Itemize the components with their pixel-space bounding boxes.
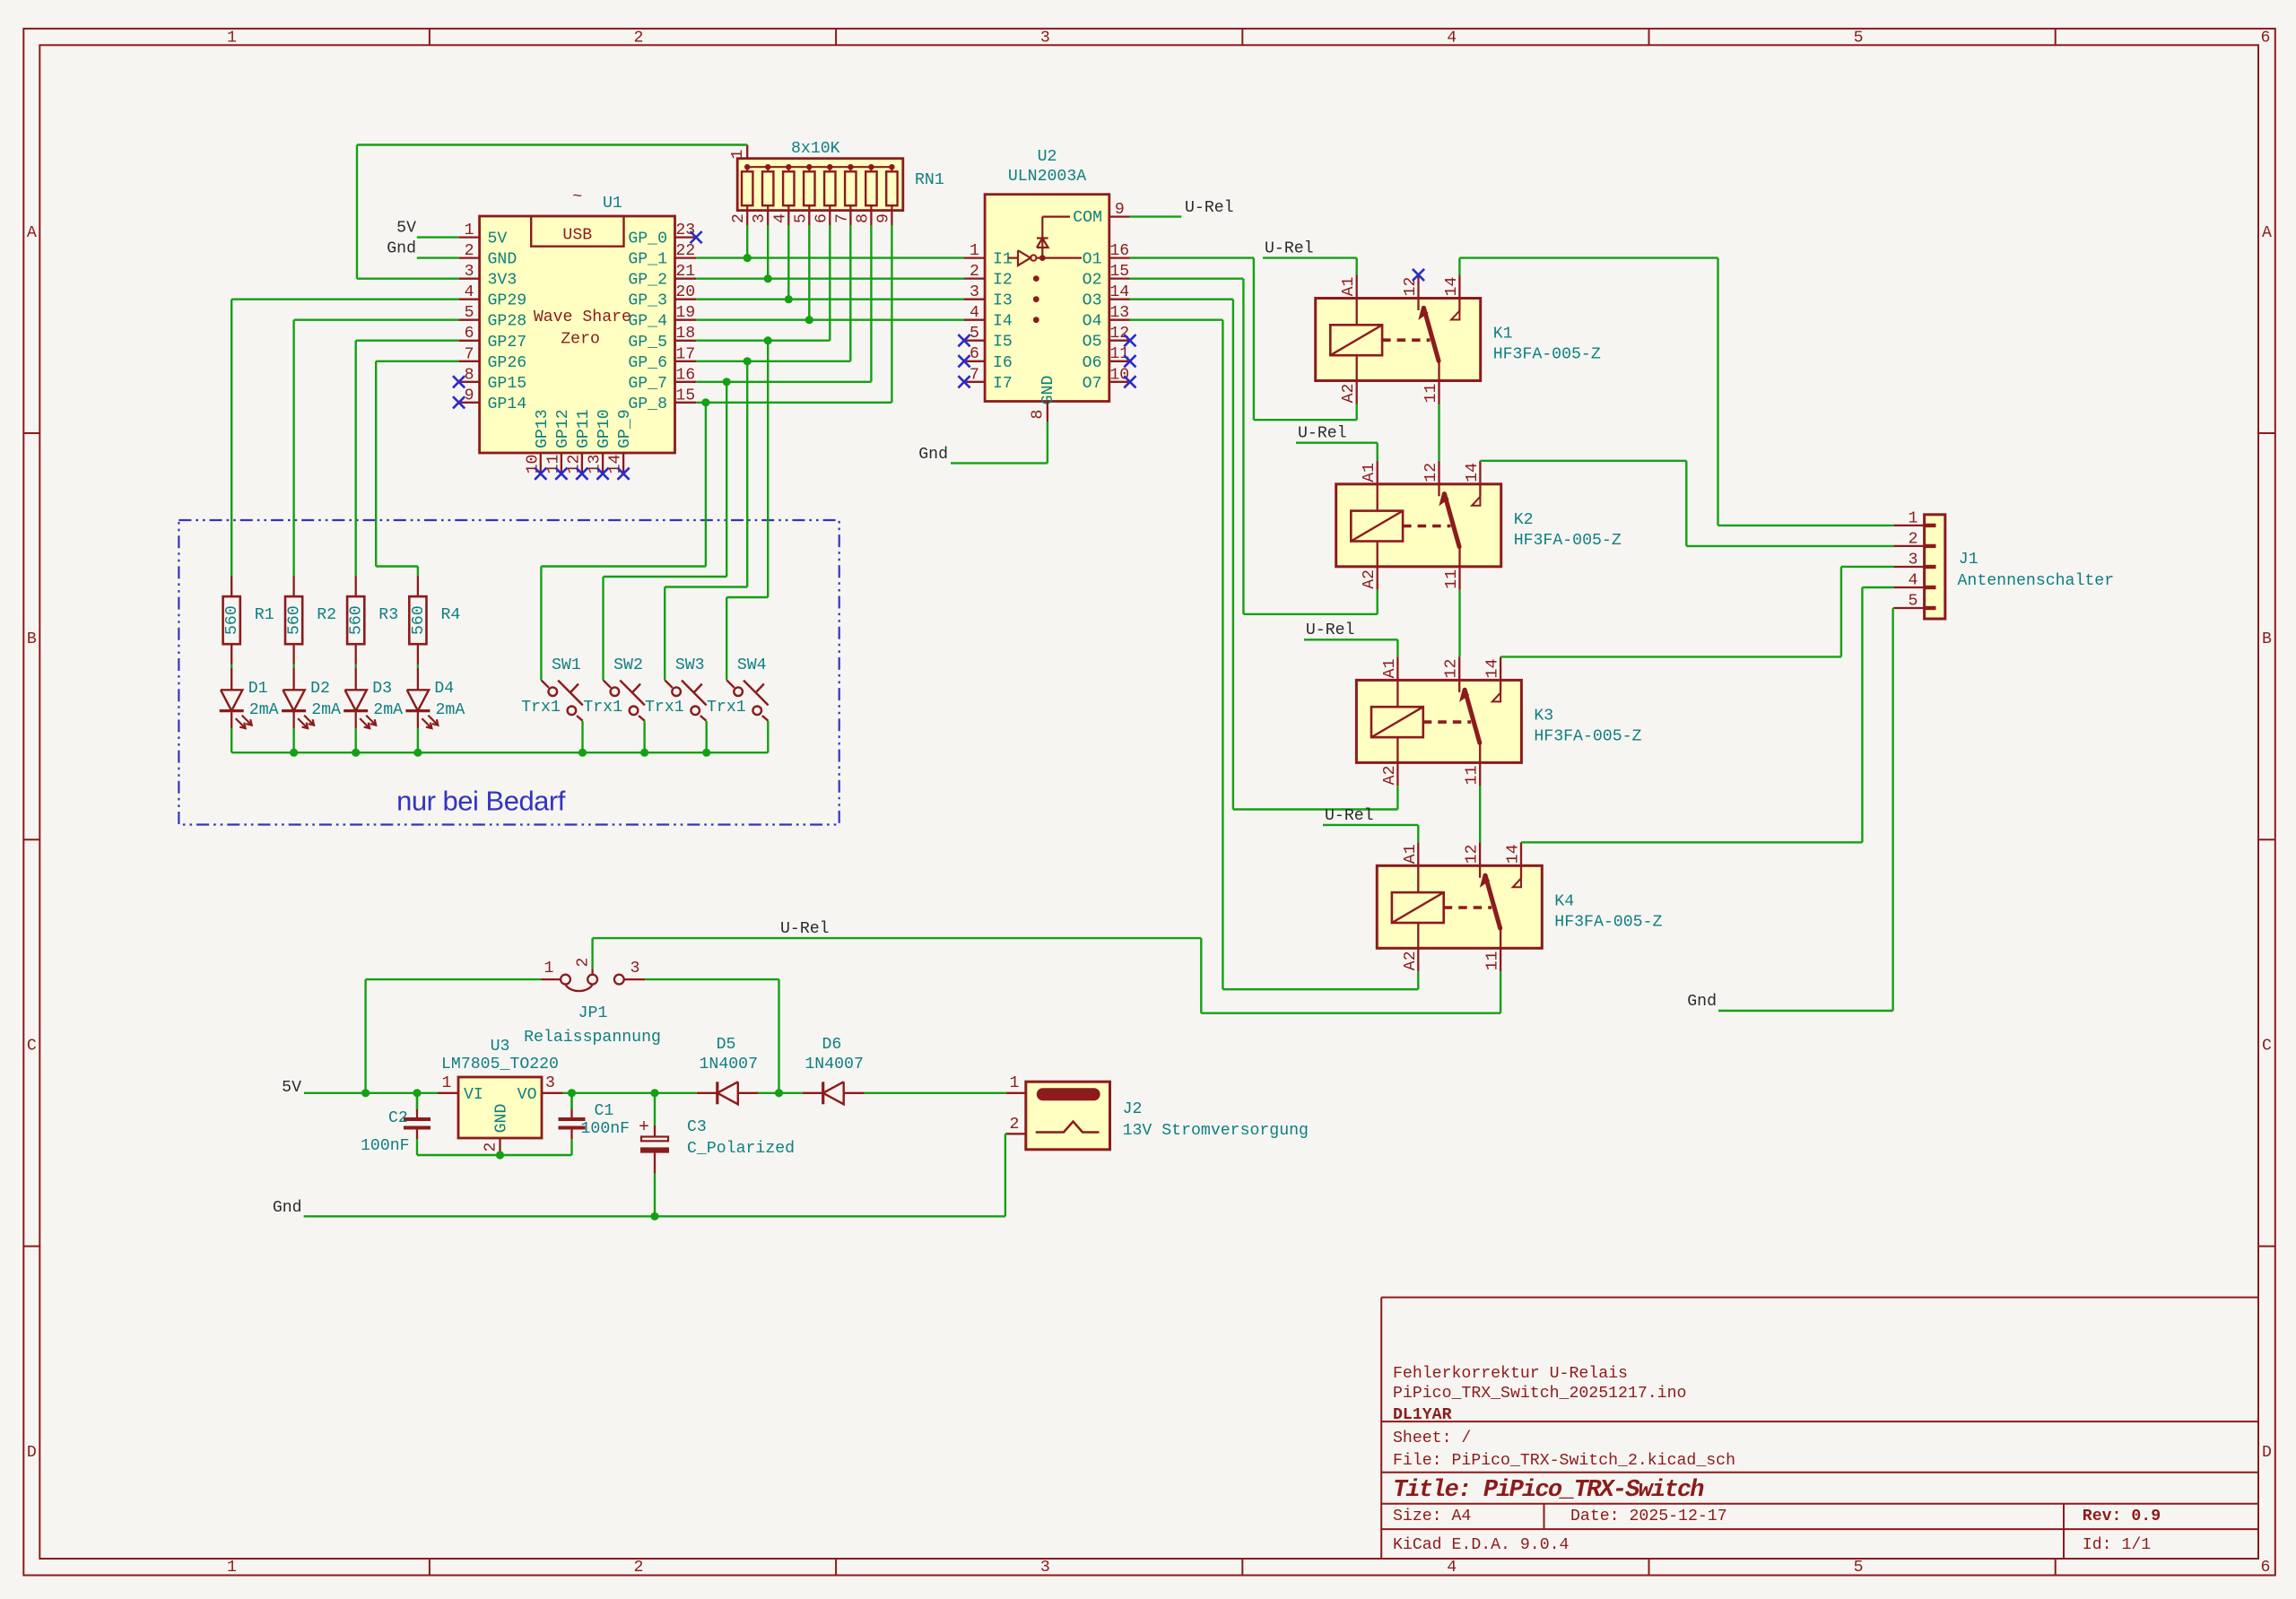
svg-text:5V: 5V — [282, 1079, 301, 1097]
svg-text:VO: VO — [517, 1086, 537, 1104]
svg-text:U2: U2 — [1038, 148, 1057, 166]
svg-text:9: 9 — [1115, 201, 1125, 219]
svg-text:A1: A1 — [1381, 658, 1399, 678]
svg-text:Relaisspannung: Relaisspannung — [524, 1029, 661, 1047]
svg-text:6: 6 — [2261, 30, 2271, 48]
svg-text:1: 1 — [1010, 1074, 1020, 1092]
svg-text:GP_6: GP_6 — [628, 354, 667, 372]
svg-text:R1: R1 — [255, 606, 274, 624]
svg-text:GP14: GP14 — [488, 395, 527, 413]
svg-text:A1: A1 — [1402, 844, 1420, 864]
svg-text:14: 14 — [1443, 277, 1461, 297]
svg-text:11: 11 — [1422, 384, 1440, 404]
svg-text:Rev: 0.9: Rev: 0.9 — [2083, 1508, 2161, 1525]
svg-text:1: 1 — [729, 149, 747, 159]
svg-text:3: 3 — [970, 283, 979, 301]
svg-text:O5: O5 — [1083, 334, 1102, 352]
svg-text:2mA: 2mA — [436, 701, 465, 719]
svg-text:14: 14 — [1109, 283, 1129, 301]
svg-text:HF3FA-005-Z: HF3FA-005-Z — [1534, 727, 1641, 745]
svg-text:1: 1 — [227, 30, 237, 48]
svg-text:RN1: RN1 — [915, 171, 944, 189]
svg-text:U3: U3 — [491, 1038, 510, 1056]
svg-text:U1: U1 — [603, 195, 622, 213]
svg-text:JP1: JP1 — [578, 1004, 608, 1022]
svg-text:I2: I2 — [993, 272, 1013, 290]
svg-text:+: + — [639, 1117, 649, 1138]
svg-text:HF3FA-005-Z: HF3FA-005-Z — [1493, 346, 1601, 364]
svg-text:PiPico_TRX_Switch_20251217.ino: PiPico_TRX_Switch_20251217.ino — [1393, 1385, 1686, 1403]
svg-text:16: 16 — [675, 366, 695, 384]
svg-text:4: 4 — [970, 304, 979, 322]
svg-text:Title: PiPico_TRX-Switch: Title: PiPico_TRX-Switch — [1393, 1477, 1704, 1504]
svg-text:D2: D2 — [310, 680, 330, 698]
svg-text:A1: A1 — [1361, 463, 1378, 482]
svg-text:GP28: GP28 — [488, 313, 527, 331]
svg-text:B: B — [27, 630, 37, 648]
svg-text:3: 3 — [1040, 30, 1050, 48]
svg-text:6: 6 — [970, 345, 979, 363]
svg-text:8: 8 — [854, 213, 872, 223]
svg-text:1: 1 — [227, 1559, 237, 1577]
svg-text:LM7805_TO220: LM7805_TO220 — [441, 1056, 559, 1073]
svg-text:Gnd: Gnd — [387, 240, 416, 258]
svg-text:5: 5 — [1854, 30, 1864, 48]
svg-text:O3: O3 — [1083, 292, 1102, 310]
svg-text:12: 12 — [1109, 325, 1129, 343]
svg-text:GP_2: GP_2 — [628, 272, 667, 290]
svg-text:O4: O4 — [1083, 313, 1102, 331]
svg-text:14: 14 — [1464, 463, 1482, 482]
svg-text:GP11: GP11 — [575, 409, 593, 448]
svg-text:Trx1: Trx1 — [583, 699, 622, 717]
svg-text:20: 20 — [675, 283, 695, 301]
svg-text:2mA: 2mA — [373, 701, 403, 719]
svg-text:21: 21 — [675, 263, 695, 281]
svg-text:560: 560 — [410, 605, 428, 635]
svg-text:2: 2 — [970, 263, 979, 281]
svg-text:100nF: 100nF — [361, 1137, 410, 1155]
svg-text:5V: 5V — [396, 220, 416, 238]
svg-text:1: 1 — [442, 1074, 452, 1092]
svg-text:100nF: 100nF — [581, 1120, 631, 1138]
svg-text:SW4: SW4 — [737, 656, 767, 674]
svg-text:GP_5: GP_5 — [628, 334, 667, 352]
svg-text:2mA: 2mA — [311, 701, 341, 719]
svg-text:4: 4 — [1909, 572, 1918, 590]
svg-text:23: 23 — [675, 222, 695, 239]
svg-text:5V: 5V — [488, 230, 508, 248]
svg-text:Fehlerkorrektur U-Relais: Fehlerkorrektur U-Relais — [1393, 1365, 1628, 1383]
svg-text:9: 9 — [874, 213, 892, 223]
svg-text:5: 5 — [792, 213, 810, 223]
svg-text:13: 13 — [1109, 304, 1129, 322]
svg-text:File: PiPico_TRX-Switch_2.kica: File: PiPico_TRX-Switch_2.kicad_sch — [1393, 1452, 1735, 1470]
svg-text:HF3FA-005-Z: HF3FA-005-Z — [1514, 532, 1622, 550]
svg-text:7: 7 — [833, 213, 851, 223]
svg-text:6: 6 — [465, 325, 474, 343]
svg-text:12: 12 — [1422, 463, 1440, 482]
svg-text:15: 15 — [675, 387, 695, 404]
svg-text:U-Rel: U-Rel — [1298, 425, 1347, 443]
svg-text:15: 15 — [1109, 263, 1129, 281]
svg-text:1: 1 — [544, 960, 554, 978]
svg-text:18: 18 — [675, 325, 695, 343]
svg-text:11: 11 — [1484, 951, 1502, 970]
svg-text:GP29: GP29 — [488, 292, 527, 310]
svg-text:D6: D6 — [822, 1036, 842, 1054]
svg-text:K4: K4 — [1554, 892, 1574, 910]
svg-text:560: 560 — [348, 605, 366, 635]
svg-text:U-Rel: U-Rel — [1325, 807, 1374, 825]
svg-text:A2: A2 — [1402, 951, 1420, 970]
svg-text:8x10K: 8x10K — [791, 140, 840, 158]
svg-text:O2: O2 — [1083, 272, 1102, 290]
svg-text:4: 4 — [1447, 1559, 1457, 1577]
svg-text:U-Rel: U-Rel — [780, 920, 830, 938]
svg-text:I5: I5 — [993, 334, 1013, 352]
svg-text:6: 6 — [813, 213, 831, 223]
svg-text:4: 4 — [1447, 30, 1457, 48]
svg-text:9: 9 — [465, 387, 474, 404]
svg-text:Date: 2025-12-17: Date: 2025-12-17 — [1570, 1508, 1727, 1525]
svg-text:GP_1: GP_1 — [628, 251, 667, 269]
svg-text:GP27: GP27 — [488, 334, 527, 352]
svg-text:GND: GND — [1039, 376, 1057, 405]
svg-text:Size: A4: Size: A4 — [1393, 1508, 1471, 1525]
svg-text:2: 2 — [633, 30, 643, 48]
svg-text:GND: GND — [493, 1104, 511, 1134]
svg-text:COM: COM — [1073, 209, 1102, 227]
svg-text:ULN2003A: ULN2003A — [1008, 168, 1086, 186]
svg-text:3: 3 — [545, 1074, 555, 1092]
svg-text:K1: K1 — [1493, 326, 1513, 343]
svg-text:GP12: GP12 — [554, 409, 572, 448]
svg-text:11: 11 — [1464, 765, 1482, 785]
svg-text:A1: A1 — [1340, 277, 1358, 297]
svg-text:I1: I1 — [993, 251, 1013, 269]
svg-text:A2: A2 — [1361, 569, 1378, 589]
svg-text:GP26: GP26 — [488, 354, 527, 372]
svg-text:R2: R2 — [317, 606, 336, 624]
svg-text:7: 7 — [465, 345, 474, 363]
svg-text:11: 11 — [1443, 569, 1461, 589]
svg-text:C2: C2 — [388, 1109, 408, 1127]
svg-text:O6: O6 — [1083, 354, 1102, 372]
svg-text:C_Polarized: C_Polarized — [687, 1140, 795, 1158]
svg-text:5: 5 — [465, 304, 474, 322]
svg-text:D3: D3 — [372, 680, 392, 698]
svg-text:2mA: 2mA — [249, 701, 279, 719]
svg-text:GP10: GP10 — [596, 409, 613, 448]
svg-text:A: A — [2262, 224, 2272, 242]
svg-text:VI: VI — [464, 1086, 483, 1104]
svg-text:O7: O7 — [1083, 375, 1102, 393]
svg-text:1: 1 — [1909, 509, 1918, 527]
svg-text:D: D — [27, 1444, 37, 1462]
svg-text:KiCad E.D.A. 9.0.4: KiCad E.D.A. 9.0.4 — [1393, 1536, 1569, 1554]
svg-text:Antennenschalter: Antennenschalter — [1958, 572, 2115, 590]
svg-text:8: 8 — [1030, 410, 1048, 420]
svg-text:SW3: SW3 — [675, 656, 705, 674]
svg-text:6: 6 — [2261, 1559, 2271, 1577]
svg-text:1N4007: 1N4007 — [804, 1056, 864, 1073]
svg-text:B: B — [2262, 630, 2272, 648]
svg-text:3: 3 — [1040, 1559, 1050, 1577]
svg-text:C3: C3 — [687, 1118, 707, 1136]
svg-text:nur bei Bedarf: nur bei Bedarf — [396, 786, 566, 817]
svg-text:R3: R3 — [378, 606, 398, 624]
svg-text:Gnd: Gnd — [918, 446, 948, 464]
svg-text:4: 4 — [771, 213, 789, 223]
svg-text:3: 3 — [465, 263, 474, 281]
svg-text:8: 8 — [465, 366, 474, 384]
svg-text:2: 2 — [483, 1143, 500, 1152]
svg-text:C1: C1 — [595, 1102, 614, 1120]
svg-text:3: 3 — [631, 960, 640, 978]
svg-text:D4: D4 — [434, 680, 454, 698]
svg-text:D1: D1 — [248, 680, 268, 698]
svg-text:560: 560 — [286, 605, 304, 635]
svg-text:Trx1: Trx1 — [645, 699, 684, 717]
svg-text:14: 14 — [1484, 658, 1502, 678]
svg-text:GP_9: GP_9 — [616, 409, 634, 448]
svg-text:GND: GND — [488, 251, 517, 269]
svg-text:J2: J2 — [1123, 1100, 1143, 1118]
svg-text:GP15: GP15 — [488, 375, 527, 393]
svg-text:Id: 1/1: Id: 1/1 — [2083, 1536, 2151, 1554]
svg-text:Zero: Zero — [561, 331, 600, 349]
svg-text:K2: K2 — [1514, 511, 1534, 529]
svg-text:3: 3 — [751, 213, 769, 223]
svg-text:2: 2 — [465, 242, 474, 260]
svg-text:U-Rel: U-Rel — [1265, 240, 1314, 258]
svg-text:Sheet: /: Sheet: / — [1393, 1430, 1471, 1447]
svg-text:3: 3 — [1909, 552, 1918, 569]
svg-text:GP_0: GP_0 — [628, 230, 667, 248]
svg-text:14: 14 — [1505, 844, 1523, 864]
svg-text:A: A — [27, 224, 37, 242]
svg-text:~: ~ — [572, 188, 582, 206]
svg-text:Gnd: Gnd — [273, 1199, 302, 1217]
svg-text:2: 2 — [1010, 1116, 1020, 1134]
svg-text:5: 5 — [1854, 1559, 1864, 1577]
svg-text:Trx1: Trx1 — [707, 699, 746, 717]
svg-text:17: 17 — [675, 345, 695, 363]
svg-text:1: 1 — [465, 222, 474, 239]
svg-text:R4: R4 — [441, 606, 461, 624]
svg-text:I3: I3 — [993, 292, 1013, 310]
svg-text:19: 19 — [675, 304, 695, 322]
svg-text:5: 5 — [1909, 593, 1918, 611]
svg-text:1N4007: 1N4007 — [700, 1056, 759, 1073]
svg-text:GP13: GP13 — [534, 409, 552, 448]
svg-text:A2: A2 — [1340, 384, 1358, 404]
svg-text:SW1: SW1 — [552, 656, 581, 674]
svg-text:10: 10 — [1109, 366, 1129, 384]
svg-text:3V3: 3V3 — [488, 272, 517, 290]
svg-text:O1: O1 — [1083, 251, 1102, 269]
svg-text:I7: I7 — [993, 375, 1013, 393]
svg-text:Wave Share: Wave Share — [534, 309, 631, 326]
svg-text:22: 22 — [675, 242, 695, 260]
svg-text:13V Stromversorgung: 13V Stromversorgung — [1123, 1122, 1309, 1140]
svg-text:12: 12 — [1443, 658, 1461, 678]
svg-text:GP_3: GP_3 — [628, 292, 667, 310]
svg-text:2: 2 — [633, 1559, 643, 1577]
svg-text:U-Rel: U-Rel — [1185, 199, 1234, 217]
svg-text:A2: A2 — [1381, 765, 1399, 785]
svg-text:7: 7 — [970, 366, 979, 384]
svg-text:HF3FA-005-Z: HF3FA-005-Z — [1554, 913, 1662, 931]
svg-text:C: C — [2262, 1038, 2272, 1056]
svg-text:GP_7: GP_7 — [628, 375, 667, 393]
svg-text:4: 4 — [465, 283, 474, 301]
svg-text:I6: I6 — [993, 354, 1013, 372]
svg-text:560: 560 — [223, 605, 241, 635]
svg-text:2: 2 — [730, 213, 748, 223]
svg-text:U-Rel: U-Rel — [1306, 621, 1355, 639]
svg-text:12: 12 — [1402, 277, 1420, 297]
svg-text:SW2: SW2 — [613, 656, 643, 674]
svg-text:2: 2 — [575, 958, 593, 968]
svg-text:USB: USB — [562, 227, 592, 245]
svg-text:Gnd: Gnd — [1687, 993, 1717, 1011]
svg-text:11: 11 — [1109, 345, 1129, 363]
svg-text:D5: D5 — [717, 1036, 736, 1054]
svg-text:12: 12 — [1464, 844, 1482, 864]
svg-text:2: 2 — [1909, 530, 1918, 548]
svg-text:C: C — [27, 1038, 37, 1056]
svg-text:DL1YAR: DL1YAR — [1393, 1406, 1452, 1424]
svg-text:5: 5 — [970, 325, 979, 343]
svg-text:K3: K3 — [1534, 707, 1553, 725]
svg-text:J1: J1 — [1959, 551, 1979, 569]
svg-text:I4: I4 — [993, 313, 1013, 331]
svg-text:1: 1 — [970, 242, 979, 260]
svg-text:GP_4: GP_4 — [628, 313, 667, 331]
svg-text:Trx1: Trx1 — [521, 699, 561, 717]
svg-text:16: 16 — [1109, 242, 1129, 260]
svg-text:D: D — [2262, 1444, 2272, 1462]
